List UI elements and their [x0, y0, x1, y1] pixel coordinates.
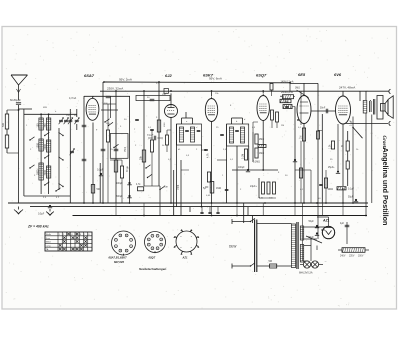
svg-text:1000: 1000 — [36, 143, 39, 149]
svg-text:6: 6 — [80, 234, 81, 236]
svg-text:6SQ7: 6SQ7 — [149, 256, 156, 260]
svg-text:AZ1: AZ1 — [182, 256, 188, 260]
svg-text:6SK7: 6SK7 — [203, 73, 214, 78]
svg-text:HSU: HSU — [164, 122, 166, 127]
svg-text:4,7mA: 4,7mA — [69, 97, 77, 100]
svg-text:1M: 1M — [280, 96, 283, 98]
svg-text:95V, 2mA: 95V, 2mA — [119, 78, 132, 82]
svg-text:7500: 7500 — [125, 146, 127, 152]
svg-text:6SQ7: 6SQ7 — [256, 73, 267, 78]
svg-text:2: 2 — [63, 234, 64, 236]
svg-text:50nF: 50nF — [320, 108, 326, 110]
svg-text:200V: 200V — [358, 255, 364, 257]
svg-text:30µµ: 30µµ — [178, 184, 180, 190]
svg-text:220V: 220V — [349, 255, 355, 257]
svg-text:2M: 2M — [281, 125, 284, 127]
svg-text:1MΩ: 1MΩ — [216, 187, 221, 190]
svg-text:25µF+: 25µF+ — [328, 167, 335, 169]
svg-text:0,1µF: 0,1µF — [348, 189, 355, 191]
svg-text:40µµF: 40µµF — [147, 135, 154, 137]
svg-text:6H6,3V0,3A: 6H6,3V0,3A — [299, 272, 313, 275]
svg-text:Kurz: Kurz — [46, 237, 50, 240]
svg-text:0,1M: 0,1M — [243, 154, 245, 159]
svg-text:4: 4 — [71, 234, 72, 236]
svg-text:100Ω: 100Ω — [328, 189, 334, 191]
svg-text:0,1MΩ: 0,1MΩ — [253, 162, 260, 164]
svg-text:Mittel: Mittel — [46, 241, 52, 244]
svg-text:0,5µF: 0,5µF — [38, 213, 45, 216]
svg-text:DEW: DEW — [229, 245, 236, 249]
svg-text:7: 7 — [84, 234, 85, 236]
svg-text:24µF+: 24µF+ — [250, 185, 257, 188]
svg-text:6V6: 6V6 — [334, 72, 342, 77]
svg-text:60-80µµF: 60-80µµF — [10, 99, 21, 102]
svg-text:1MΩ: 1MΩ — [284, 102, 289, 104]
svg-text:3000: 3000 — [36, 169, 39, 175]
svg-text:7000: 7000 — [44, 170, 47, 176]
svg-text:4µF: 4µF — [340, 223, 345, 225]
svg-text:2MΩ: 2MΩ — [259, 139, 264, 141]
svg-text:6SA7,5/1,6SK7: 6SA7,5/1,6SK7 — [109, 256, 128, 260]
svg-text:→: → — [324, 259, 327, 263]
svg-text:6E5: 6E5 — [298, 72, 306, 77]
svg-text:100µF: 100µF — [238, 167, 245, 169]
svg-text:240V: 240V — [340, 255, 346, 257]
svg-text:150: 150 — [36, 123, 39, 128]
svg-text:4,7k: 4,7k — [207, 153, 210, 158]
svg-text:3MΩ: 3MΩ — [295, 88, 300, 90]
svg-text:247V, 48mA: 247V, 48mA — [339, 86, 355, 90]
svg-text:6J2: 6J2 — [165, 73, 172, 78]
svg-text:50µF: 50µF — [309, 221, 315, 223]
svg-text:140V,0,2mA: 140V,0,2mA — [281, 80, 294, 83]
svg-text:1M: 1M — [300, 136, 303, 139]
svg-text:1MΩ: 1MΩ — [259, 153, 264, 155]
svg-text:2000: 2000 — [44, 144, 47, 150]
svg-text:1: 1 — [59, 234, 60, 236]
svg-text:6E7,6V6: 6E7,6V6 — [114, 260, 125, 264]
svg-text:6SA7: 6SA7 — [84, 73, 95, 78]
svg-text:260kΩ,2mA: 260kΩ,2mA — [281, 91, 294, 94]
svg-text:Ton: Ton — [164, 186, 169, 189]
svg-text:Sockelschaltungen: Sockelschaltungen — [139, 267, 167, 271]
svg-text:230V, 32mA: 230V, 32mA — [107, 86, 123, 90]
svg-text:Welle: Welle — [46, 234, 52, 236]
svg-text:750: 750 — [44, 123, 47, 128]
svg-text:5M: 5M — [269, 260, 272, 263]
svg-text:0,1µF: 0,1µF — [351, 119, 353, 126]
svg-text:8: 8 — [88, 234, 89, 236]
svg-text:ZF = 468 kHz: ZF = 468 kHz — [27, 225, 49, 229]
svg-text:500: 500 — [2, 122, 5, 127]
svg-text:Angelina und Postillon: Angelina und Postillon — [381, 148, 390, 226]
svg-text:30 µµ: 30 µµ — [127, 165, 129, 172]
svg-text:→: → — [324, 270, 327, 274]
